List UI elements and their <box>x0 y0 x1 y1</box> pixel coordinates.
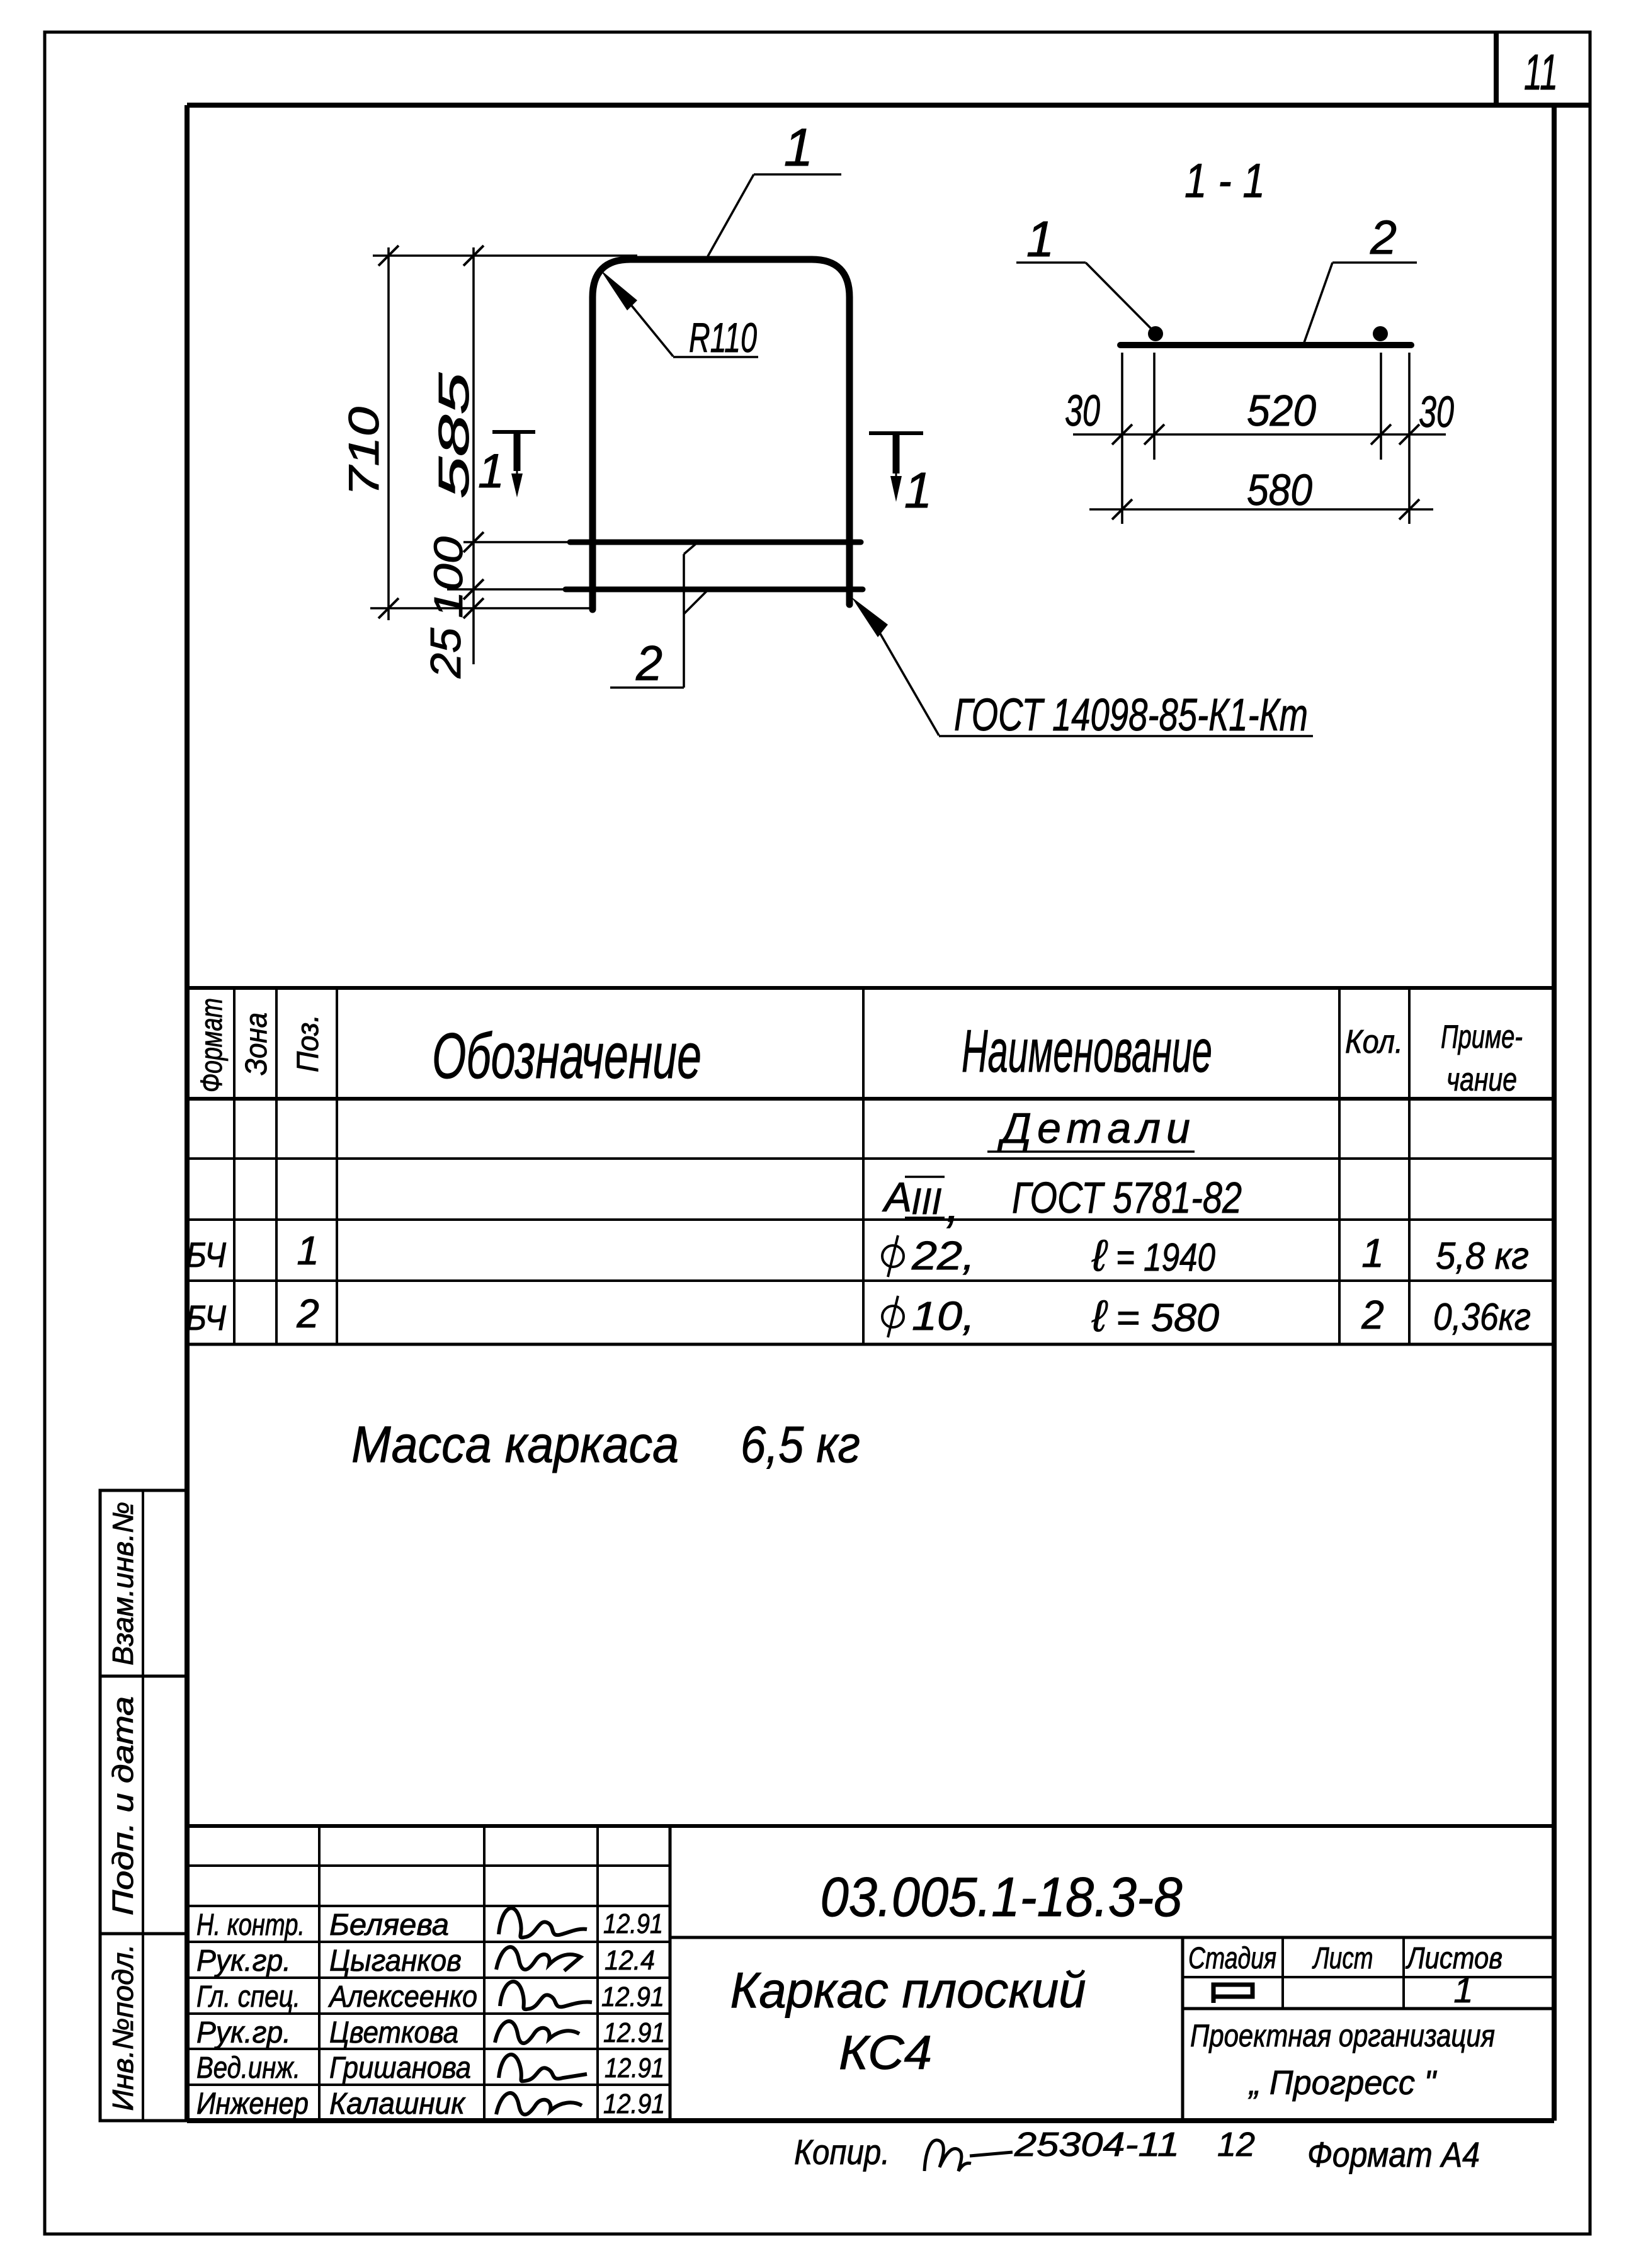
svg-text:Гл. спец.: Гл. спец. <box>196 1980 300 2014</box>
svg-text:Наименование: Наименование <box>962 1018 1212 1085</box>
svg-text:Поз.: Поз. <box>292 1014 325 1072</box>
svg-text:520: 520 <box>1247 386 1316 435</box>
svg-text:БЧ: БЧ <box>186 1298 226 1337</box>
svg-text:0,36кг: 0,36кг <box>1433 1296 1531 1338</box>
svg-text:Калашник: Калашник <box>329 2087 466 2121</box>
svg-text:= 1940: = 1940 <box>1116 1236 1215 1279</box>
svg-text:12: 12 <box>1217 2126 1255 2163</box>
svg-text:чание: чание <box>1446 1062 1517 1098</box>
svg-text:Инженер: Инженер <box>196 2087 309 2121</box>
svg-text:585: 585 <box>430 373 478 499</box>
svg-text:III: III <box>911 1181 941 1222</box>
svg-text:11: 11 <box>1524 44 1558 100</box>
svg-text:10,: 10, <box>912 1293 975 1339</box>
svg-text:Гришанова: Гришанова <box>329 2051 471 2085</box>
svg-text:1: 1 <box>1026 211 1055 267</box>
svg-text:6,5 кг: 6,5 кг <box>741 1416 860 1473</box>
svg-text:ГОСТ 5781-82: ГОСТ 5781-82 <box>1012 1173 1242 1222</box>
svg-text:12.4: 12.4 <box>605 1945 655 1976</box>
svg-text:Беляева: Беляева <box>329 1908 449 1942</box>
svg-text:Стадия: Стадия <box>1188 1942 1276 1975</box>
svg-text:Рук.гр.: Рук.гр. <box>196 2016 291 2050</box>
svg-text:Обозначение: Обозначение <box>432 1020 702 1092</box>
svg-text:30: 30 <box>1419 387 1454 436</box>
svg-text:Формат А4: Формат А4 <box>1307 2135 1480 2174</box>
svg-text:1: 1 <box>904 462 933 518</box>
svg-text:Каркас плоский: Каркас плоский <box>730 1962 1086 2018</box>
svg-text:ГОСТ 14098-85-К1-Кт: ГОСТ 14098-85-К1-Кт <box>954 690 1308 740</box>
svg-text:25: 25 <box>422 628 470 679</box>
svg-text:Цветкова: Цветкова <box>329 2016 458 2050</box>
svg-text:12.91: 12.91 <box>601 1982 664 2012</box>
svg-text:30: 30 <box>1065 386 1100 435</box>
svg-text:710: 710 <box>340 407 388 496</box>
svg-text:03.005.1-18.3-8: 03.005.1-18.3-8 <box>821 1866 1183 1928</box>
svg-text:Копир.: Копир. <box>794 2132 890 2172</box>
svg-text:1: 1 <box>297 1228 319 1273</box>
svg-text:,: , <box>946 1176 960 1232</box>
svg-text:КС4: КС4 <box>839 2026 932 2080</box>
svg-text:А: А <box>882 1174 912 1220</box>
svg-text:Н. контр.: Н. контр. <box>196 1908 305 1942</box>
svg-text:Инв.№подл.: Инв.№подл. <box>106 1944 139 2111</box>
svg-text:2: 2 <box>1361 1292 1384 1337</box>
svg-text:1: 1 <box>1453 1970 1473 2010</box>
svg-text:12.91: 12.91 <box>603 2089 665 2119</box>
svg-text:100: 100 <box>426 536 471 618</box>
svg-text:1: 1 <box>784 118 814 177</box>
svg-text:1 - 1: 1 - 1 <box>1184 154 1265 208</box>
svg-text:Взам.инв.№: Взам.инв.№ <box>106 1502 139 1665</box>
svg-text:12.91: 12.91 <box>605 2053 664 2084</box>
svg-text:Формат: Формат <box>195 998 229 1092</box>
svg-text:Кол.: Кол. <box>1345 1024 1403 1060</box>
svg-text:Рук.гр.: Рук.гр. <box>196 1944 291 1978</box>
svg-text:„ Прогресс ": „ Прогресс " <box>1248 2064 1438 2102</box>
svg-text:Зона: Зона <box>240 1012 273 1075</box>
svg-text:Цыганков: Цыганков <box>329 1944 462 1978</box>
svg-text:12.91: 12.91 <box>603 1908 663 1939</box>
svg-text:580: 580 <box>1247 465 1312 514</box>
svg-text:Приме-: Приме- <box>1441 1019 1523 1055</box>
svg-text:Подп. и дата: Подп. и дата <box>106 1696 139 1915</box>
svg-text:2: 2 <box>296 1291 319 1336</box>
svg-text:Проектная организация: Проектная организация <box>1190 2018 1495 2053</box>
svg-text:Детали: Детали <box>997 1104 1190 1152</box>
svg-text:22,: 22, <box>911 1233 975 1278</box>
svg-text:Лист: Лист <box>1312 1942 1373 1975</box>
svg-text:= 580: = 580 <box>1116 1296 1219 1340</box>
svg-text:Масса каркаса: Масса каркаса <box>351 1416 679 1473</box>
svg-text:БЧ: БЧ <box>186 1235 226 1274</box>
svg-text:1: 1 <box>1361 1230 1384 1276</box>
svg-text:2: 2 <box>1370 211 1397 264</box>
svg-text:ℓ: ℓ <box>1091 1291 1108 1341</box>
svg-text:5,8 кг: 5,8 кг <box>1436 1235 1529 1277</box>
svg-text:ℓ: ℓ <box>1091 1231 1108 1280</box>
svg-text:R110: R110 <box>689 314 757 361</box>
svg-text:12.91: 12.91 <box>603 2017 665 2048</box>
svg-text:Вед.инж.: Вед.инж. <box>196 2051 300 2085</box>
svg-text:25304-11: 25304-11 <box>1014 2126 1179 2163</box>
svg-text:Алексеенко: Алексеенко <box>327 1980 477 2014</box>
svg-text:1: 1 <box>478 445 504 498</box>
svg-text:2: 2 <box>635 635 662 691</box>
